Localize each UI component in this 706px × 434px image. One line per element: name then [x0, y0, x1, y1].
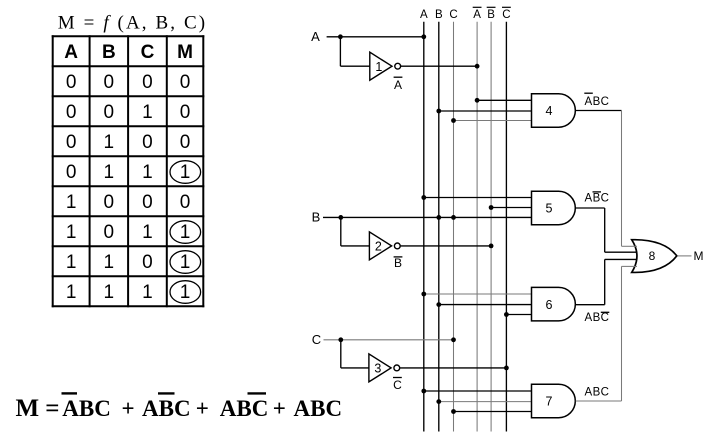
- svg-text:B: B: [312, 210, 321, 225]
- wire inverter 1 output to Abar bus: [401, 65, 478, 67]
- svg-text:1: 1: [180, 222, 191, 243]
- svg-text:B: B: [394, 256, 402, 270]
- svg-text:0: 0: [180, 72, 191, 93]
- wire input B across buses to gate 5: [323, 216, 532, 218]
- wire B bus to gate 7: [439, 401, 532, 403]
- svg-text:A: A: [394, 78, 402, 92]
- label ABarBC: [584, 93, 609, 108]
- wire Bbar bus to gate 5: [491, 207, 531, 209]
- svg-text:1: 1: [66, 222, 77, 243]
- node C-bus junction: [451, 337, 456, 342]
- svg-text:1: 1: [180, 252, 191, 273]
- svg-text:A: A: [311, 29, 320, 44]
- svg-text:0: 0: [142, 72, 153, 93]
- svg-text:0: 0: [142, 192, 153, 213]
- wire B bus to gate 6: [439, 304, 532, 306]
- svg-text:1: 1: [104, 282, 115, 303]
- svg-text:+: +: [273, 396, 286, 421]
- svg-text:ABC: ABC: [294, 396, 343, 421]
- node inverter1-Abar junction: [475, 64, 480, 69]
- node B-bus junction: [436, 215, 441, 220]
- svg-text:M: M: [694, 249, 704, 263]
- node A-gate7 junction: [421, 389, 426, 394]
- svg-text:1: 1: [375, 60, 382, 74]
- svg-text:6: 6: [546, 298, 553, 312]
- label ABbarC: [585, 192, 610, 205]
- svg-text:A: A: [420, 9, 428, 21]
- bus line A: [423, 22, 425, 432]
- svg-text:C: C: [393, 378, 402, 392]
- svg-text:ABC: ABC: [62, 396, 111, 421]
- svg-text:1: 1: [66, 282, 77, 303]
- svg-text:4: 4: [546, 104, 553, 118]
- circled minterm ones in M column: [170, 161, 201, 304]
- svg-text:M = f (A, B, C): M = f (A, B, C): [58, 12, 207, 33]
- svg-text:B: B: [487, 9, 495, 21]
- svg-text:1: 1: [66, 192, 77, 213]
- wire gate 5 output: [576, 207, 605, 209]
- svg-text:M: M: [177, 42, 193, 63]
- svg-text:+: +: [196, 396, 209, 421]
- svg-text:ABC: ABC: [585, 387, 610, 399]
- wire drop C to inverter 3: [340, 340, 342, 368]
- overbar on A of first term: [62, 392, 78, 394]
- svg-text:ABC: ABC: [585, 193, 610, 205]
- AND gate 6: [532, 287, 576, 321]
- svg-text:5: 5: [546, 202, 553, 216]
- wire input C to C bus: [324, 339, 454, 341]
- svg-text:C: C: [502, 9, 510, 21]
- node A-bus junction: [421, 34, 426, 39]
- svg-text:C: C: [141, 42, 155, 63]
- output equation M = ABC+ABC+ABC+ABC: [16, 395, 343, 422]
- svg-text:0: 0: [66, 162, 77, 183]
- svg-text:1: 1: [142, 222, 153, 243]
- wire drop B to inverter 2: [340, 217, 342, 246]
- svg-text:0: 0: [180, 132, 191, 153]
- wire Cbar bus to gate 6: [506, 314, 531, 316]
- svg-text:2: 2: [375, 240, 382, 254]
- wire B bus to gate 4: [439, 110, 532, 112]
- wire gate 7 output: [576, 400, 622, 402]
- svg-text:1: 1: [142, 102, 153, 123]
- node B-gate7 junction: [436, 399, 441, 404]
- node C-wire junction: [338, 337, 343, 342]
- truth table data rows: [66, 72, 190, 303]
- AND gate 4: [532, 94, 576, 128]
- node C-gate7 junction: [451, 409, 456, 414]
- overbar on B of second term: [158, 392, 175, 394]
- wire OR output: [678, 255, 692, 257]
- node inverter2-Bbar junction: [489, 244, 494, 249]
- node C-gate4 junction: [451, 118, 456, 123]
- bus line Cbar: [505, 22, 507, 432]
- svg-text:C: C: [312, 332, 321, 347]
- wire A bus to gate 7: [424, 390, 532, 392]
- bus line C: [453, 22, 455, 432]
- svg-text:ABC: ABC: [220, 396, 269, 421]
- AND gate 7: [532, 384, 576, 417]
- svg-text:0: 0: [66, 102, 77, 123]
- svg-text:+: +: [122, 396, 135, 421]
- bus label Cbar: [502, 7, 511, 20]
- svg-text:1: 1: [180, 282, 191, 303]
- wire gate 4 output: [576, 110, 622, 112]
- svg-text:8: 8: [649, 249, 656, 263]
- wire A bus to gate 6: [424, 293, 532, 295]
- wire inverter 2 output to Bbar bus: [400, 245, 491, 247]
- wire gate 5 into OR: [605, 251, 637, 253]
- wire C bus to gate 4: [454, 120, 532, 122]
- wire drop A to inverter 1: [339, 37, 341, 66]
- svg-text:1: 1: [104, 252, 115, 273]
- svg-text:B: B: [102, 42, 116, 63]
- svg-text:7: 7: [546, 395, 553, 409]
- wire inverter 3 output to Cbar bus: [400, 367, 507, 369]
- svg-text:0: 0: [66, 72, 77, 93]
- svg-text:3: 3: [374, 362, 381, 376]
- svg-text:1: 1: [104, 162, 115, 183]
- label Cbar output: [393, 378, 402, 392]
- node Abar-gate4 junction: [475, 98, 480, 103]
- svg-text:0: 0: [104, 72, 115, 93]
- wire gate 6 into OR: [605, 258, 637, 260]
- wire C bus to gate 7: [454, 411, 532, 413]
- inverter 3: [369, 354, 400, 382]
- node C-bus junction on gate5 row: [451, 215, 456, 220]
- wire gate 4 into OR: [622, 245, 638, 247]
- svg-text:ABC: ABC: [585, 96, 610, 108]
- inverter 1: [370, 52, 401, 80]
- node inverter3-Cbar junction: [504, 366, 509, 371]
- wire gate 4 output vertical: [621, 111, 623, 247]
- svg-text:1: 1: [180, 162, 191, 183]
- svg-text:A: A: [473, 9, 481, 21]
- svg-text:0: 0: [104, 222, 115, 243]
- svg-text:0: 0: [180, 102, 191, 123]
- inverter 2: [369, 232, 400, 260]
- label Abar output: [394, 77, 403, 92]
- node B-gate6 junction: [436, 302, 441, 307]
- svg-text:C: C: [449, 9, 457, 21]
- truth table header A B C M: [64, 42, 193, 63]
- svg-text:0: 0: [104, 192, 115, 213]
- bus line B: [438, 22, 440, 432]
- svg-text:1: 1: [142, 282, 153, 303]
- svg-text:ABC: ABC: [142, 396, 191, 421]
- svg-text:0: 0: [66, 132, 77, 153]
- wire gate 7 into OR: [622, 265, 638, 267]
- wire gate 6 output: [576, 304, 605, 306]
- node Cbar-gate6 junction: [504, 312, 509, 317]
- wire Abar bus to gate 4: [477, 99, 531, 101]
- svg-text:=: =: [45, 395, 59, 422]
- node A-gate6 junction: [421, 292, 426, 297]
- svg-text:0: 0: [142, 132, 153, 153]
- node A-gate5 junction: [421, 195, 426, 200]
- svg-text:A: A: [64, 42, 78, 63]
- label Bbar output: [394, 256, 403, 270]
- svg-text:B: B: [435, 9, 443, 21]
- svg-text:ABC: ABC: [585, 312, 610, 324]
- truth table grid: [52, 35, 205, 307]
- bus label Bbar: [487, 7, 496, 20]
- svg-text:1: 1: [104, 132, 115, 153]
- node B-wire junction: [338, 215, 343, 220]
- svg-text:0: 0: [142, 252, 153, 273]
- label ABCbar: [585, 312, 610, 324]
- svg-text:1: 1: [66, 252, 77, 273]
- svg-text:M: M: [16, 395, 40, 422]
- bus label Abar: [473, 7, 482, 20]
- overbar on C of third term: [248, 392, 267, 394]
- bus line Bbar: [490, 22, 492, 432]
- node A-wire junction: [338, 34, 343, 39]
- OR gate 8: [632, 240, 677, 273]
- node Bbar-gate5 junction: [489, 205, 494, 210]
- svg-text:1: 1: [142, 162, 153, 183]
- wire input A to bus A: [327, 36, 424, 38]
- svg-text:0: 0: [104, 102, 115, 123]
- wire A bus to gate 5: [424, 197, 532, 199]
- node B-gate4 junction: [436, 109, 441, 114]
- AND gate 5: [532, 191, 576, 224]
- bus line Abar: [476, 22, 478, 432]
- svg-text:0: 0: [180, 192, 191, 213]
